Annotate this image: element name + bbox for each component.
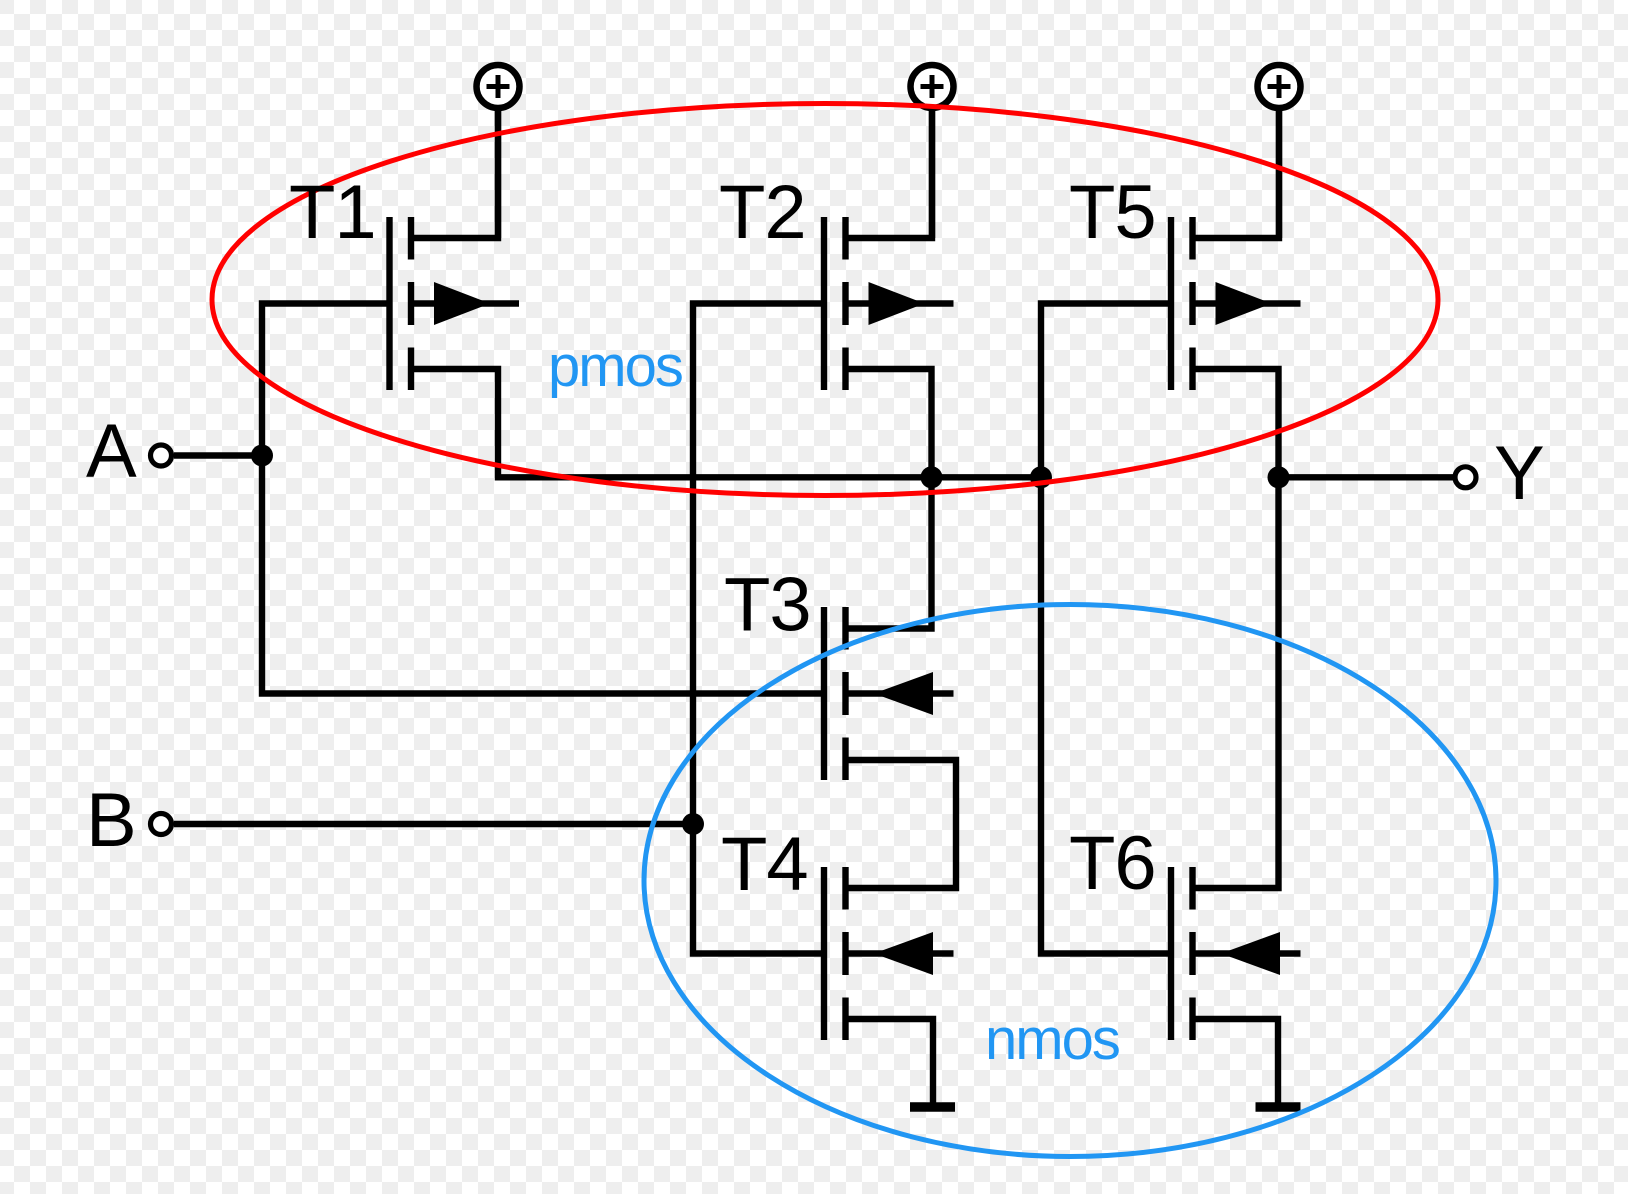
svg-text:T5: T5 — [1069, 170, 1156, 255]
svg-text:A: A — [86, 409, 137, 494]
svg-text:T2: T2 — [719, 170, 806, 255]
svg-text:nmos: nmos — [985, 1007, 1119, 1072]
svg-text:T1: T1 — [289, 170, 376, 255]
svg-text:B: B — [86, 778, 137, 863]
svg-text:T4: T4 — [721, 822, 808, 907]
svg-text:T6: T6 — [1069, 821, 1156, 906]
svg-text:pmos: pmos — [548, 334, 682, 399]
svg-text:Y: Y — [1494, 431, 1545, 516]
svg-text:T3: T3 — [724, 563, 811, 648]
